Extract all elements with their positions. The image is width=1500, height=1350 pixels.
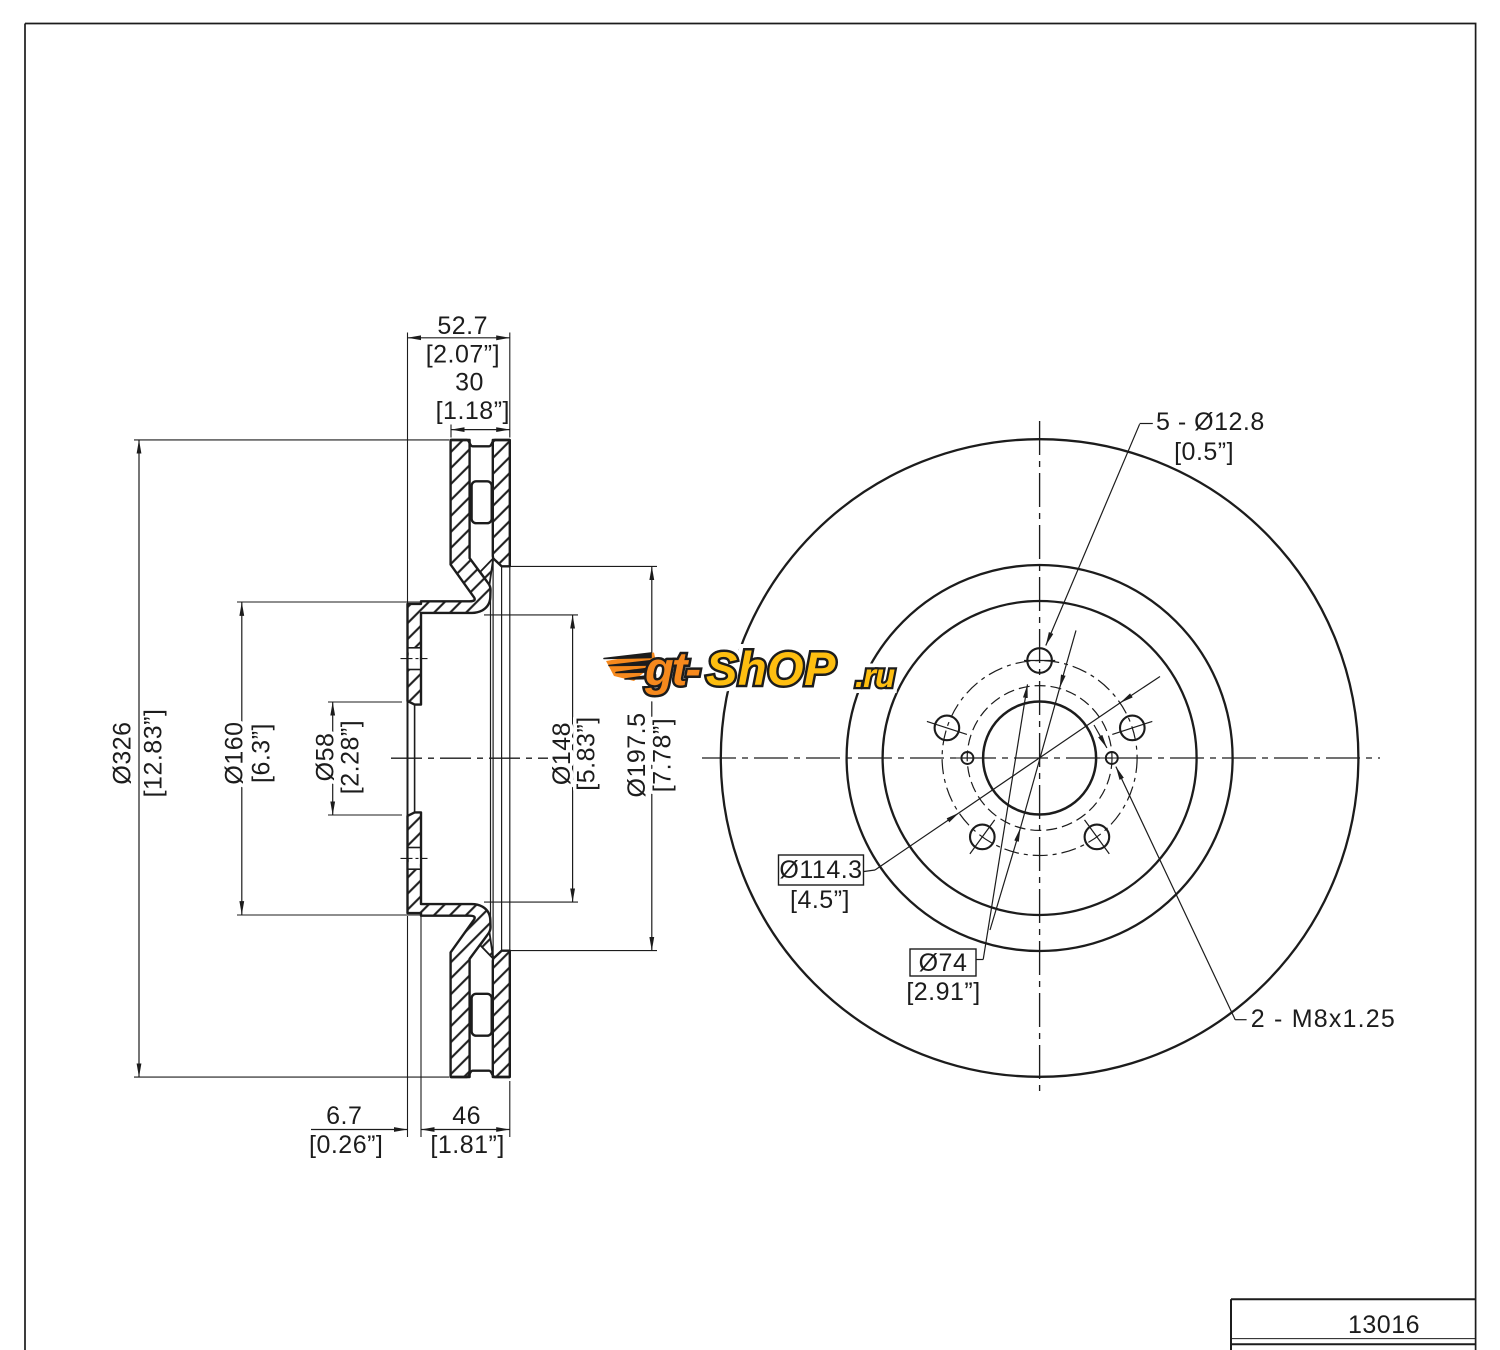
dim 46 [421,1129,510,1131]
ext lines Ø160 [237,601,470,603]
svg-text:[6.3”]: [6.3”] [248,723,276,783]
svg-text:[0.26”]: [0.26”] [309,1131,383,1159]
gt-shop.ru logo [604,642,895,695]
leader 2-M8x1.25 [1116,767,1247,1020]
svg-text:[0.5”]: [0.5”] [1174,438,1234,466]
svg-text:Ø74: Ø74 [919,949,968,977]
bore wall edge line [414,705,416,759]
svg-text:46: 46 [452,1102,481,1130]
outer circle Ø326 [721,439,1359,1077]
circle Ø197.5 [847,565,1233,951]
ring top edge with vent notch dip [451,440,510,446]
svg-text:[2.28”]: [2.28”] [337,720,365,794]
logo text [644,642,895,695]
Ø74 leader from box [976,684,1028,959]
svg-text:Ø197.5: Ø197.5 [623,712,651,797]
speed lines [606,653,656,682]
ext lines 6.7 / 46 [407,916,409,1137]
svg-text:[1.81”]: [1.81”] [430,1131,504,1159]
leader 5-Ø12.8 [1046,424,1153,646]
svg-text:[2.91”]: [2.91”] [906,978,980,1006]
dim 6.7 [311,1129,408,1131]
ext lines Ø148 [484,614,578,616]
svg-text:ShOP: ShOP [706,642,836,695]
inboard plate + cone + barrel + flange solid (hatched) [408,440,491,705]
dim Ø148 [572,615,574,902]
svg-text:gt-: gt- [644,642,700,695]
svg-text:[4.5”]: [4.5”] [790,886,850,914]
dim 30 [451,429,510,431]
center bore circle [983,702,1096,815]
ext lines Ø326 [134,439,449,441]
svg-text:13016: 13016 [1348,1311,1420,1339]
svg-text:[12.83”]: [12.83”] [140,709,168,798]
svg-text:[2.07”]: [2.07”] [426,341,500,369]
M8 service holes [961,752,973,764]
horizontal centerline [702,757,1380,759]
short leader at right M8 hole [1094,725,1107,748]
svg-text:[7.78”]: [7.78”] [649,718,677,792]
svg-text:6.7: 6.7 [326,1102,362,1130]
svg-text:2 - M8x1.25: 2 - M8x1.25 [1251,1005,1396,1033]
dim Ø197.5 [651,566,653,950]
bolt holes (5 x Ø12.8) [935,648,1145,849]
svg-text:[1.18”]: [1.18”] [436,397,510,425]
vent junction wedge [480,558,493,584]
ext lines for 52.7 and 30 [407,333,409,604]
svg-text:52.7: 52.7 [437,312,488,340]
mounting face silhouette through bore [407,701,409,759]
svg-text:30: 30 [455,369,484,397]
left view centerline [391,757,548,759]
title block [1231,1299,1476,1350]
extension lines, thin [134,333,657,1138]
svg-text:Ø160: Ø160 [221,721,249,784]
dim Ø326 [138,440,140,1077]
dim Ø58 [332,702,334,815]
ext lines Ø58 [328,701,402,703]
flange bolt hole gap [409,648,420,670]
svg-text:Ø58: Ø58 [312,733,340,782]
dim Ø160 [241,602,243,914]
upper half of section [401,440,510,759]
silhouette thin verticals [490,591,492,759]
svg-text:Ø326: Ø326 [109,721,137,784]
bolt hole ticks [927,661,1152,854]
bolt circle dash-dot [942,661,1137,856]
svg-text:5 - Ø12.8: 5 - Ø12.8 [1156,408,1265,436]
svg-text:Ø114.3: Ø114.3 [779,856,862,884]
Ø74 box [910,949,976,976]
svg-text:.ru: .ru [855,657,895,694]
Ø74 diameter line through center [990,630,1076,930]
Ø74 dashed circle [967,686,1112,831]
ext lines Ø197.5 [502,565,657,567]
outboard plate solid (hatched) [493,440,510,566]
dim 52.7 [408,337,510,339]
dimension lines with arrows [139,338,652,1130]
circle hat Ø160 [883,601,1197,915]
vent vane (rounded rect) [472,481,492,523]
Ø114.3 box [779,855,864,885]
vertical centerline [1039,421,1041,1096]
white glow backing [644,642,895,695]
svg-text:[5.83”]: [5.83”] [573,716,601,790]
Ø114.3 diameter line through center [864,677,1160,872]
bolt circle tick on flange [401,658,428,660]
